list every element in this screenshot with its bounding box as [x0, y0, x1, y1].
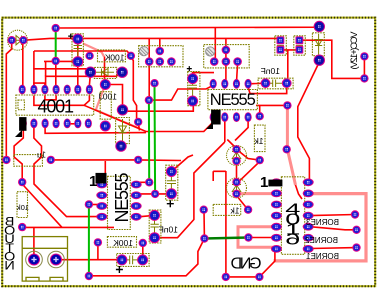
IC U3 NE555 left pads — [96, 181, 107, 189]
green node pad right — [244, 233, 252, 241]
capacitor C4 outline — [117, 254, 149, 267]
BORNE3 pad — [351, 210, 359, 218]
wire R4 1u left pad up — [5, 156, 7, 158]
wire long diagonal to U2 pin1 — [84, 105, 213, 131]
svg-text:4001: 4001 — [38, 97, 75, 117]
capacitor C2 plates — [189, 80, 198, 99]
GND pad 2 — [255, 273, 263, 281]
capacitor C3 pads — [166, 166, 177, 177]
wire U2 area to via — [256, 104, 287, 106]
wire T1 pad down to via pad B — [131, 57, 149, 122]
LED D4 symbol — [232, 150, 241, 160]
green4 top pad — [85, 200, 93, 208]
green node pad left — [200, 234, 208, 242]
LED D4 pads — [232, 145, 240, 153]
wire R3 10k bottom to BOUTON — [22, 226, 114, 228]
IC U3 pin1 marker — [96, 173, 107, 184]
resistor R7 pads — [200, 206, 208, 214]
wire green4 pad to U3 pin3 — [91, 204, 99, 206]
resistor R5 pads — [256, 112, 264, 120]
wire R4 1u right pad to NE555 U3 pin1 — [52, 159, 181, 162]
capacitor C1 plates — [74, 40, 83, 60]
capacitor C5b pads — [296, 36, 304, 44]
wire via diag to 4017 — [296, 185, 303, 199]
wire node pad to 4001 pin4 — [55, 64, 57, 85]
wire C7 right pad down to U2 pin8 — [248, 83, 287, 93]
VCC stub pads — [360, 52, 368, 60]
wire dark green horizontal net — [204, 238, 248, 239]
wire green net 1 — [55, 28, 57, 61]
capacitor C5a plates — [277, 41, 284, 50]
resistor R6 pads — [94, 238, 102, 246]
resistor R1 100K outline — [98, 50, 126, 62]
wire U2 pin4 to C7 left pad — [250, 82, 264, 85]
capacitor C7 pads — [261, 78, 271, 88]
wire R2 100K vertical top pad right to diode D3 — [105, 85, 122, 108]
resistor R4 pads — [2, 156, 10, 164]
LED D1 symbol — [13, 36, 22, 45]
svg-text:GND: GND — [231, 256, 262, 273]
resistor R4 1u outline — [14, 155, 43, 167]
capacitor C4 pads — [116, 254, 127, 265]
green3 top pad — [145, 96, 153, 104]
svg-text:100K: 100K — [104, 53, 124, 63]
wire U2 pin4 bottom diagonal — [235, 119, 248, 141]
capacitor C6 10nF outline — [149, 210, 161, 243]
diode D5 outline — [312, 33, 324, 56]
wire diode D2 pad to 4001 pin7 — [89, 74, 90, 85]
wire VCC top rail — [56, 27, 320, 29]
LED D6 symbol — [232, 183, 241, 193]
wire VCC stub pads vertical — [363, 56, 365, 78]
diode D2 pads — [85, 67, 96, 78]
wire U3 pin7 to C3 bottom pad — [137, 193, 168, 195]
svg-text:100J: 100J — [99, 92, 117, 102]
wire rail into U2 pin1 — [153, 86, 212, 100]
capacitor C2 pads — [187, 73, 198, 84]
svg-text:BORNE2: BORNE2 — [305, 236, 338, 245]
diode D5 pads — [314, 21, 325, 32]
BOUTON terminal foot 2 — [50, 277, 63, 281]
relay T1 hatch circle — [139, 47, 148, 56]
wire 4017 pin outputs to BORNE3 — [310, 215, 355, 216]
LED D1 outline — [8, 30, 28, 50]
IC U2 pin1 marker — [211, 110, 221, 125]
wire 4001 pin3 up and right — [46, 73, 123, 87]
diode D3 outline — [116, 118, 130, 144]
LED D6 outline — [227, 178, 247, 198]
svg-text:VCC(+12V): VCC(+12V) — [349, 32, 360, 70]
svg-text:10nF: 10nF — [159, 225, 178, 235]
capacitor C5a pads — [277, 36, 285, 44]
wire LED D4 top to R5 bottom — [238, 151, 260, 161]
via pad B — [134, 118, 142, 126]
svg-text:1k: 1k — [254, 136, 264, 146]
relay T2 pads — [222, 46, 231, 55]
wire T2 pin down to NE555 U2 pin2 — [225, 38, 227, 82]
BORNE1 pad — [352, 243, 360, 251]
wire 4017 to BORNE1 — [310, 247, 357, 250]
svg-text:N: N — [4, 259, 14, 273]
wire 4001 pin8 down to R3 10k — [14, 127, 23, 180]
wire horizontal mid line from via pad — [138, 122, 139, 131]
IC U2 NE555 top row pads — [210, 79, 217, 89]
LED D1 pads — [8, 36, 16, 44]
capacitor C1 plus — [68, 34, 73, 39]
IC U4 label — [285, 200, 300, 248]
on-trace pad R4 line — [134, 156, 142, 164]
wire long return: C6 10nF to NE555 U2 area — [156, 142, 225, 238]
LED D4 outline — [227, 146, 247, 166]
svg-text:10nF: 10nF — [261, 66, 280, 76]
wire 4001 side to C2 bottom pad — [124, 101, 193, 111]
capacitor C2 outline — [188, 72, 200, 106]
wire salmon diagonal from cap C1 area — [83, 44, 104, 57]
svg-text:NE555: NE555 — [112, 173, 132, 223]
wire green net 4 — [88, 204, 90, 276]
node pad green1 bottom — [52, 57, 60, 65]
IC U2 NE555 outline — [208, 90, 258, 110]
wire GND pads horizontal — [226, 276, 260, 278]
IC U2 NE555 bottom row pads — [210, 112, 217, 122]
wire salmon diagonal to via row — [96, 87, 139, 129]
svg-text:BORNE3: BORNE3 — [306, 218, 339, 227]
wire R6 100K right pad down to C4 — [142, 244, 144, 257]
svg-text:1: 1 — [89, 173, 97, 190]
IC U3 NE555 outline — [108, 176, 131, 229]
green3 bottom pad — [145, 178, 153, 186]
capacitor C1 pads — [72, 34, 83, 45]
diode D5 symbol — [315, 34, 322, 55]
IC U4 pin1 marker — [268, 180, 282, 187]
wire D5 bottom diagonal down to 4017 pin16 — [298, 62, 320, 181]
IC U1 notch — [18, 100, 24, 110]
wire 4017 to BORNE2 — [310, 227, 357, 230]
BOUTON terminal outline — [22, 237, 67, 282]
via pad D — [283, 145, 291, 153]
wire U3 pin5 to C6 top — [137, 216, 151, 217]
IC U2 pin1 arrow — [206, 122, 213, 129]
component symbols (olive solid) — [13, 34, 322, 264]
svg-text:6: 6 — [285, 230, 300, 248]
wire green net 2 — [154, 83, 157, 194]
relay T1 pads — [156, 47, 165, 56]
resistor R6 100K outline — [107, 237, 136, 248]
wire green node pad return path — [89, 239, 204, 276]
wire LED D1 cathode down left edge — [6, 44, 11, 156]
diode D3 pads — [117, 104, 128, 115]
capacitor C3 plates — [167, 173, 176, 192]
IC U1 pin1 arrow — [15, 130, 22, 137]
wire BOUTON pad1 up — [33, 227, 35, 255]
relay T1 outline — [139, 46, 183, 67]
wire U3 pin8 to green3 pad — [137, 181, 146, 183]
resistor R1 pads — [85, 52, 93, 60]
wire salmon big loop to BORNE region — [274, 194, 367, 261]
LED D6 pads — [232, 178, 240, 186]
wire T1 top pad up to rail — [159, 38, 161, 49]
capacitor C3 outline — [166, 165, 178, 200]
resistor R5 1k outline — [254, 125, 265, 152]
BORNE2 pad — [352, 226, 360, 234]
wire LED D6 bottom to R7 1k — [237, 162, 260, 210]
wire 4001 pins 10-11 bridge — [67, 123, 78, 125]
BOUTON label — [4, 215, 15, 273]
IC U1 4001 top row pads — [19, 85, 26, 95]
capacitor C5b plates — [296, 41, 303, 50]
capacitor C1 outline — [72, 34, 83, 66]
wire salmon LED3 to 4017 pin2 — [238, 192, 274, 195]
wire salmon loop to 4017 pins 5 and 7 — [238, 227, 274, 248]
capacitor C6 pads — [149, 210, 160, 221]
svg-text:NE555: NE555 — [210, 91, 256, 109]
capacitor C2 plus — [187, 66, 192, 71]
wire 4001 pin2 internal to pin7 — [34, 96, 90, 106]
wire pad row to C1 bottom — [44, 61, 76, 76]
node pad top — [52, 24, 60, 32]
IC U4 4017 right pads — [303, 178, 314, 186]
relay T2 hatch circle — [206, 47, 215, 56]
IC U3 NE555 right pads — [131, 181, 142, 189]
wire 4001 pin9 down diagonal to NE555 U3 pin4 — [22, 126, 99, 227]
BOUTON pads — [26, 251, 43, 268]
IC U1 4001 bottom row pads — [20, 119, 27, 129]
wire LED D1 anode down to 4001 pin1 — [22, 44, 24, 85]
svg-text:10k: 10k — [17, 203, 29, 212]
BOUTON terminal inner line — [22, 247, 67, 249]
svg-text:1k: 1k — [230, 206, 240, 216]
wire T2 feed vertical — [214, 28, 216, 60]
IC U1 pin1 marker — [19, 117, 26, 131]
wire from node to R1 area — [34, 51, 131, 69]
wire 4001 pin2 up and right to D2 — [34, 69, 91, 87]
green4 bottom pad — [85, 272, 93, 280]
wire 4001 pin3 bottom to mid line — [45, 126, 146, 133]
diode D3 symbol — [119, 119, 127, 142]
wire T2 right pad down to U2 pin3 — [237, 63, 238, 82]
wire vertical through D2 — [104, 57, 106, 88]
GND pad 1 — [222, 273, 230, 281]
wire green pad to 4017 pin6 — [248, 237, 274, 239]
green2 bottom pad — [151, 190, 159, 198]
wire C1 bottom to 4001 pin5 — [77, 40, 79, 85]
wire R6 100K left pad down — [97, 244, 99, 260]
resistor R7 1k outline — [213, 204, 241, 215]
wire second top rail from LED D1 to C5 — [24, 38, 280, 40]
diode D2 outline — [94, 67, 116, 78]
wire BOUTON pad2 to C4 — [60, 259, 117, 261]
IC U1 4001 outline — [16, 95, 94, 115]
wire green net 3 — [148, 100, 150, 182]
resistor R3 pads — [18, 178, 26, 186]
wire salmon vertical from via to via — [287, 105, 295, 185]
wire C3 top pad diagonal up right — [171, 155, 193, 172]
wire cross line y171 — [213, 171, 226, 181]
svg-text:1u: 1u — [37, 151, 46, 160]
resistor R3 10k outline — [17, 192, 28, 218]
wire GND pad diagonal up to 4017 pin7 — [259, 249, 275, 277]
wire 4001 top jumper pins 2-3 — [34, 83, 45, 86]
wire U2 pin6 down to LED D4 — [225, 118, 237, 149]
capacitor C7 10nF outline — [258, 78, 293, 89]
capacitor C3 plus — [167, 200, 174, 207]
green2 top pad — [150, 79, 158, 87]
IC U4 4017 outline — [281, 177, 304, 255]
svg-text:BORNE1: BORNE1 — [306, 252, 339, 261]
IC U4 4017 left pads — [271, 178, 282, 186]
svg-text:100K: 100K — [113, 238, 133, 248]
capacitor C4 plates — [124, 256, 142, 265]
resistor R2 100K outline — [100, 92, 111, 120]
capacitor C6 plates — [151, 217, 159, 236]
BOUTON terminal foot 1 — [26, 277, 39, 281]
wire long vertical through R7 to GND pad — [225, 171, 227, 277]
wire C5a to C7 10nF right pad — [287, 50, 289, 81]
capacitor C5a outline — [275, 36, 287, 55]
wire LED D4 cathode to LED D6 anode — [236, 162, 238, 181]
capacitor C7 plates — [267, 80, 285, 88]
wire VCC stub to board — [303, 40, 364, 78]
wire T1 feed vertical — [148, 38, 150, 60]
capacitor C5b outline — [294, 36, 306, 55]
via pad C — [283, 101, 291, 109]
wire U3 pin1 vertical — [104, 161, 106, 179]
wire R5 1k top pad up to via line — [259, 106, 261, 116]
wire R7 left pad down to green node — [203, 211, 205, 239]
wire C2 top to T2 column — [193, 73, 214, 77]
resistor R2 pads — [100, 79, 111, 90]
relay T2 outline — [204, 45, 250, 68]
capacitor C4 plus — [116, 266, 123, 273]
wire 4001 pins 3-4 jumper — [45, 96, 56, 100]
diode D2 symbol — [96, 69, 115, 76]
wire C5a bottom bridge — [280, 49, 299, 51]
svg-text:1: 1 — [260, 174, 268, 191]
